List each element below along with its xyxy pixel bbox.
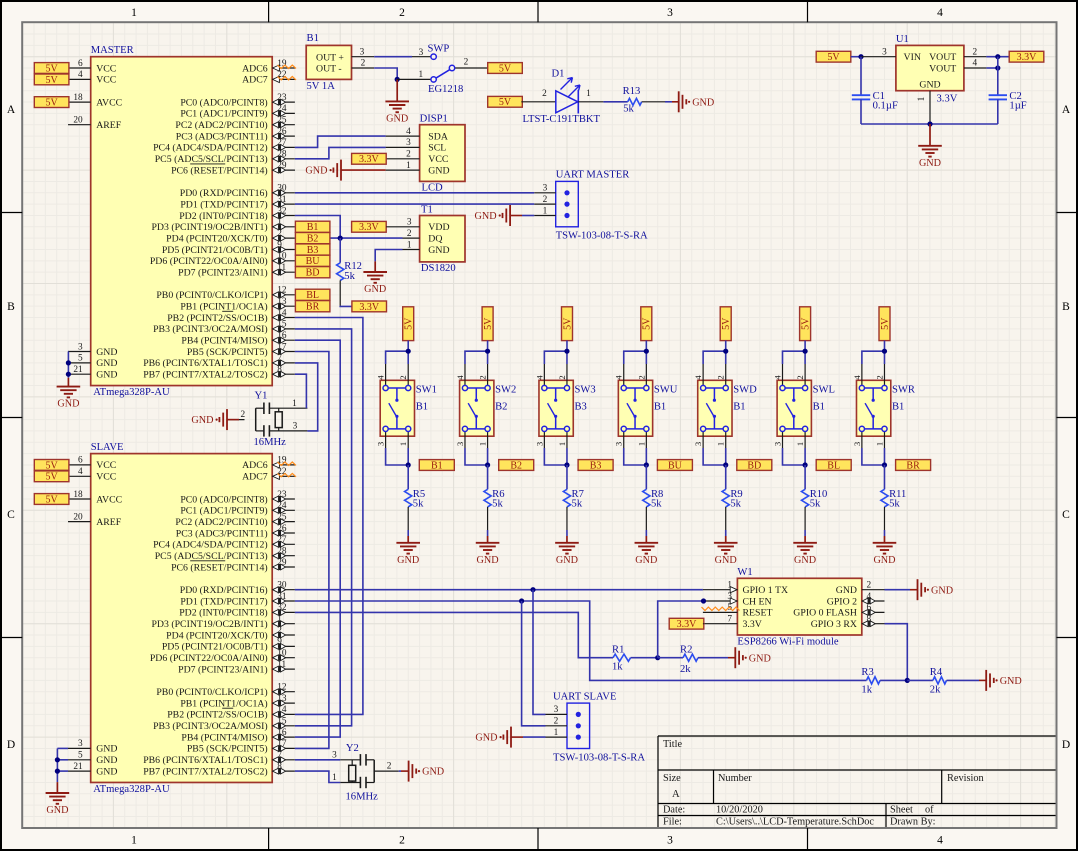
wire B2 net to T1 DQ	[330, 237, 403, 239]
svg-text:4: 4	[406, 127, 411, 137]
svg-text:D1: D1	[552, 69, 565, 80]
MASTER pin 29 PC6 (RESET/PCINT14)	[171, 161, 295, 177]
svg-text:ADC6: ADC6	[242, 460, 268, 471]
switch SWD B1	[693, 364, 757, 448]
wire SWD pins to net node	[703, 448, 726, 465]
resistor R3 1k	[861, 667, 880, 695]
title block	[658, 736, 1056, 827]
wire branch to UART SLAVE pin 2	[522, 601, 546, 726]
ground below R6	[476, 536, 500, 566]
MASTER pin 12 PB0 (PCINT0/CLKO/ICP1)	[156, 286, 295, 302]
svg-text:GND: GND	[836, 585, 857, 596]
svg-text:B1: B1	[307, 222, 319, 233]
svg-text:2: 2	[636, 375, 646, 379]
svg-text:5V: 5V	[721, 317, 732, 330]
SLAVE pin 32 PD2 (INT0/PCINT18)	[179, 603, 295, 619]
svg-text:GND: GND	[556, 555, 578, 566]
svg-text:2: 2	[361, 59, 366, 69]
resistor R9 5k	[722, 465, 743, 536]
wire U1 VOUT to 3.3V	[986, 56, 1009, 58]
svg-text:2: 2	[972, 47, 977, 57]
svg-text:2: 2	[399, 7, 405, 19]
svg-text:5k: 5k	[492, 499, 503, 510]
switch SWR B1	[852, 364, 916, 448]
svg-text:2: 2	[464, 58, 469, 68]
MASTER pin 1 PD3 (PCINT19/OC2B/INT1)	[151, 218, 294, 234]
ground left of DISP1 GND pin	[305, 160, 385, 181]
svg-text:2k: 2k	[680, 664, 691, 675]
IC MASTER ATmega328P-AU body	[91, 45, 273, 398]
SLAVE pin 29 PC6 (RESET/PCINT14)	[171, 558, 295, 574]
svg-text:2: 2	[407, 229, 412, 239]
MASTER pin 13 PB1 (PCINT1/OC1A)	[180, 297, 295, 313]
svg-text:1: 1	[543, 206, 548, 216]
net label B1 at SW1	[419, 460, 454, 472]
svg-text:1: 1	[406, 161, 411, 171]
svg-text:PD7 (PCINT23/AIN1): PD7 (PCINT23/AIN1)	[178, 268, 268, 279]
ground symbol below U1	[918, 124, 942, 169]
wire node up to W1 CH EN	[658, 601, 704, 658]
wire MASTER GND pins bundle	[67, 352, 69, 378]
svg-text:3: 3	[852, 442, 862, 446]
svg-text:2: 2	[398, 375, 408, 379]
svg-text:GND: GND	[96, 358, 117, 369]
header UART MASTER TSW-103-08-T-S-RA	[556, 170, 648, 242]
junction above SWR	[882, 349, 887, 354]
ground below R11	[873, 536, 897, 566]
ground symbol below B1	[385, 79, 409, 124]
svg-text:PD7 (PCINT23/AIN1): PD7 (PCINT23/AIN1)	[178, 664, 268, 675]
junction below SW2	[485, 462, 490, 467]
svg-text:PD0 (RXD/PCINT16): PD0 (RXD/PCINT16)	[180, 585, 268, 596]
MASTER pin 23 PC0 (ADC0/PCINT8)	[180, 93, 295, 109]
svg-text:SW3: SW3	[574, 385, 595, 396]
SLAVE pin 18 AVCC	[68, 490, 122, 506]
U1 pin 2 VOUT	[964, 47, 986, 57]
svg-text:3: 3	[407, 218, 412, 228]
svg-text:3: 3	[293, 422, 298, 432]
resistor R8 5k	[643, 465, 664, 536]
SLAVE pin 16 PB4 (PCINT4/MISO)	[181, 728, 294, 744]
svg-text:1: 1	[586, 89, 591, 99]
resistor R10 5k	[802, 465, 828, 536]
SLAVE pin 26 PC3 (ADC3/PCINT11)	[176, 524, 295, 540]
no-ERC marker MASTER ADC7	[278, 77, 297, 80]
junction below SWD	[723, 462, 728, 467]
svg-text:GND: GND	[96, 744, 117, 755]
U1 pin 4 VOUT	[964, 59, 986, 69]
junction VOUT node	[995, 54, 1000, 59]
svg-text:1: 1	[398, 442, 408, 446]
svg-text:3: 3	[693, 442, 703, 446]
svg-text:SWL: SWL	[813, 385, 835, 396]
junction above SW2	[485, 349, 490, 354]
svg-text:PC1 (ADC1/PCINT9): PC1 (ADC1/PCINT9)	[180, 109, 267, 120]
junction below SWL	[803, 462, 808, 467]
svg-text:PC0 (ADC0/PCINT8): PC0 (ADC0/PCINT8)	[180, 97, 267, 108]
svg-text:T1: T1	[421, 204, 433, 215]
MASTER pin 31 PD1 (TXD/PCINT17)	[180, 195, 295, 211]
svg-text:4: 4	[614, 375, 624, 380]
MASTER pin 11 PD7 (PCINT23/AIN1)	[178, 263, 295, 279]
DISP1 pin 4 SDA	[386, 127, 448, 143]
T1 pin 1 GND	[403, 240, 450, 256]
junction at MASTER GND pin 5	[66, 360, 71, 365]
svg-text:PD6 (PCINT22/OC0A/AIN0): PD6 (PCINT22/OC0A/AIN0)	[150, 256, 268, 267]
SLAVE pin 20 AREF	[68, 512, 122, 528]
power port 5V at U1 VIN	[816, 51, 851, 63]
svg-text:PD5 (PCINT21/OC0B/T1): PD5 (PCINT21/OC0B/T1)	[162, 642, 268, 653]
svg-text:2: 2	[716, 375, 726, 379]
svg-text:BU: BU	[306, 256, 321, 267]
resistor R13 5k	[623, 86, 642, 114]
svg-text:PC4 (ADC4/SDA/PCINT12): PC4 (ADC4/SDA/PCINT12)	[153, 143, 268, 154]
UART SLAVE pin 1	[546, 728, 568, 738]
svg-text:7: 7	[727, 615, 732, 625]
svg-text:5V: 5V	[45, 63, 58, 74]
svg-text:VOUT: VOUT	[929, 64, 956, 75]
junction VOUT2 node	[995, 65, 1000, 70]
svg-text:3.3V: 3.3V	[1017, 52, 1038, 63]
svg-text:1: 1	[478, 442, 488, 446]
MASTER pin 27 PC4 (ADC4/SDA/PCINT12)	[153, 138, 295, 154]
svg-text:EG1218: EG1218	[428, 84, 463, 95]
ground symbol below T1	[363, 261, 387, 295]
UART MASTER pin 1	[534, 206, 556, 216]
U1 pin 1 GND	[917, 91, 930, 124]
svg-text:Revision: Revision	[947, 773, 984, 784]
svg-text:GND: GND	[191, 415, 213, 426]
svg-text:5V: 5V	[45, 98, 58, 109]
wire 5V to SW1 pins	[386, 341, 409, 364]
svg-text:B2: B2	[495, 402, 507, 413]
svg-text:VCC: VCC	[96, 472, 116, 483]
svg-text:5k: 5k	[572, 499, 583, 510]
svg-text:18: 18	[73, 490, 83, 500]
svg-text:3: 3	[376, 442, 386, 446]
ground below R8	[635, 536, 659, 566]
svg-text:File:: File:	[663, 816, 682, 827]
svg-text:B2: B2	[510, 460, 522, 471]
svg-text:PB3 (PCINT3/OC2A/MOSI): PB3 (PCINT3/OC2A/MOSI)	[153, 721, 268, 732]
svg-text:PD2 (INT0/PCINT18): PD2 (INT0/PCINT18)	[179, 211, 267, 222]
SLAVE pin 15 PB3 (PCINT3/OC2A/MOSI)	[153, 717, 295, 733]
SLAVE pin 12 PB0 (PCINT0/CLKO/ICP1)	[156, 683, 295, 699]
power port 5V above SW3	[562, 307, 574, 341]
svg-text:VCC: VCC	[96, 460, 116, 471]
svg-text:OUT -: OUT -	[316, 64, 342, 75]
svg-text:GND: GND	[919, 158, 941, 169]
SLAVE pin 28 PC5 (ADC5/SCL/PCINT13)	[155, 547, 295, 563]
svg-text:3: 3	[78, 739, 83, 749]
svg-text:TSW-103-08-T-S-RA: TSW-103-08-T-S-RA	[556, 231, 648, 242]
svg-text:CH EN: CH EN	[743, 596, 772, 607]
switch SWL B1	[773, 364, 835, 448]
wire SLAVE GND pins bundle	[57, 748, 68, 782]
svg-text:1: 1	[716, 442, 726, 446]
SLAVE pin 11 PD7 (PCINT23/AIN1)	[178, 660, 295, 676]
svg-text:PC3 (ADC3/PCINT11): PC3 (ADC3/PCINT11)	[176, 528, 268, 539]
svg-text:GPIO 1 TX: GPIO 1 TX	[743, 585, 789, 596]
svg-text:5V: 5V	[642, 317, 653, 330]
wire MASTER PC5 to DISP1 SCL	[295, 147, 386, 158]
svg-text:3: 3	[554, 705, 559, 715]
ground right of R4	[979, 670, 1022, 691]
wire SLAVE PD1 main	[295, 601, 867, 680]
svg-text:5V: 5V	[499, 97, 512, 108]
svg-text:5k: 5k	[623, 104, 634, 115]
MASTER pin 19 ADC6	[242, 59, 295, 75]
MASTER pin 5 GND	[68, 354, 117, 370]
junction below SWR	[882, 462, 887, 467]
svg-text:BR: BR	[306, 302, 320, 313]
SLAVE pin 22 ADC7	[242, 467, 295, 483]
svg-text:U1: U1	[896, 34, 909, 45]
svg-text:ADC7: ADC7	[242, 472, 268, 483]
net label BD at SWD	[737, 460, 772, 472]
svg-text:GND: GND	[96, 347, 117, 358]
svg-text:B1: B1	[307, 33, 319, 44]
svg-text:SW1: SW1	[416, 385, 437, 396]
svg-text:AVCC: AVCC	[96, 97, 122, 108]
svg-text:GND: GND	[96, 766, 117, 777]
svg-text:1: 1	[795, 442, 805, 446]
wire 3.3V to T1 VDD	[386, 226, 402, 228]
svg-text:2: 2	[557, 375, 567, 379]
svg-text:1: 1	[557, 442, 567, 446]
header UART SLAVE TSW-103-08-T-S-RA	[553, 691, 645, 763]
svg-text:Y1: Y1	[255, 391, 268, 402]
svg-text:2: 2	[406, 150, 411, 160]
wire node to R2	[658, 657, 683, 659]
wire 5V to SWL pins	[783, 341, 806, 364]
power port 5V at SLAVE VCC pin 6	[34, 460, 69, 472]
MASTER pin 26 PC3 (ADC3/PCINT11)	[176, 127, 295, 143]
svg-text:3: 3	[78, 342, 83, 352]
svg-text:Sheet: Sheet	[890, 805, 913, 816]
svg-text:PB5 (SCK/PCINT5): PB5 (SCK/PCINT5)	[187, 744, 268, 755]
ground left of UART MASTER pin 1	[475, 205, 522, 226]
temperature sensor T1 DS1820	[420, 204, 465, 274]
ground left of UART SLAVE pin 1	[475, 727, 523, 748]
UART MASTER pin 3	[534, 184, 556, 194]
MASTER pin 17 PB5 (SCK/PCINT5)	[187, 342, 295, 358]
svg-text:OUT +: OUT +	[316, 52, 344, 63]
svg-text:5k: 5k	[651, 499, 662, 510]
svg-text:1: 1	[636, 442, 646, 446]
power port 5V above SW2	[482, 307, 494, 341]
svg-text:ESP8266 Wi-Fi module: ESP8266 Wi-Fi module	[737, 637, 839, 648]
svg-text:BD: BD	[306, 268, 320, 279]
svg-text:5: 5	[78, 751, 83, 761]
resistor R1 1k	[612, 645, 631, 673]
svg-text:B: B	[7, 301, 15, 313]
svg-text:PC4 (ADC4/SDA/PCINT12): PC4 (ADC4/SDA/PCINT12)	[153, 540, 268, 551]
junction SLAVE PD1 branch	[519, 598, 524, 603]
MASTER pin 21 GND	[68, 365, 117, 381]
svg-text:1k: 1k	[861, 684, 872, 695]
svg-text:5k: 5k	[413, 499, 424, 510]
power port 5V at D1 anode	[488, 96, 523, 108]
MASTER pin 20 AREF	[68, 116, 122, 132]
svg-text:UART SLAVE: UART SLAVE	[553, 691, 616, 702]
svg-text:3: 3	[332, 750, 337, 760]
ground below R10	[793, 536, 817, 566]
svg-text:PB6 (PCINT6/XTAL1/TOSC1): PB6 (PCINT6/XTAL1/TOSC1)	[143, 358, 268, 369]
svg-text:GND: GND	[1000, 676, 1022, 687]
SLAVE pin 10 PD6 (PCINT22/OC0A/AIN0)	[150, 649, 295, 665]
net label BR at SWR	[896, 460, 931, 472]
svg-text:BU: BU	[668, 460, 683, 471]
B1 pin 3 OUT+	[352, 47, 375, 57]
power port 3.3V at DISP1 VCC	[352, 153, 387, 165]
svg-text:PB7 (PCINT7/XTAL2/TOSC2): PB7 (PCINT7/XTAL2/TOSC2)	[143, 766, 268, 777]
svg-text:3: 3	[667, 835, 673, 847]
svg-text:BR: BR	[906, 460, 920, 471]
svg-text:2: 2	[867, 581, 872, 591]
svg-text:W1: W1	[737, 567, 752, 578]
wire 3.3V to W1 pin 7	[702, 623, 705, 625]
svg-text:GND: GND	[364, 284, 386, 295]
SLAVE pin 25 PC2 (ADC2/PCINT10)	[175, 512, 294, 528]
wire 5V to SW2 pins	[465, 341, 488, 364]
svg-text:B3: B3	[574, 402, 586, 413]
svg-text:PD3 (PCINT19/OC2B/INT1): PD3 (PCINT19/OC2B/INT1)	[151, 222, 267, 233]
svg-text:GND: GND	[96, 370, 117, 381]
svg-text:R3: R3	[861, 667, 873, 678]
svg-text:PB4 (PCINT4/MISO): PB4 (PCINT4/MISO)	[181, 732, 267, 743]
svg-text:PB2 (PCINT2/SS/OC1B): PB2 (PCINT2/SS/OC1B)	[167, 313, 267, 324]
junction R1-R2 node	[655, 655, 660, 660]
no-ERC marker W1 RESET	[702, 607, 740, 610]
svg-text:DQ: DQ	[428, 233, 442, 244]
W1 pin 2 GND	[836, 581, 885, 597]
W1 pin 5 RESET	[703, 603, 773, 619]
svg-text:PD4 (PCINT20/XCK/T0): PD4 (PCINT20/XCK/T0)	[166, 233, 268, 244]
svg-text:2: 2	[387, 762, 392, 772]
wire 5V to SWU pins	[624, 341, 647, 364]
svg-text:5V: 5V	[483, 317, 494, 330]
svg-text:GND: GND	[96, 755, 117, 766]
wire SLAVE PB6 to Y2 pin 3	[295, 759, 340, 761]
net label BR at MASTER PB1	[295, 301, 330, 313]
DISP1 pin 3 SCL	[386, 138, 447, 154]
SLAVE pin 13 PB1 (PCINT1/OC1A)	[180, 694, 295, 710]
svg-text:D: D	[1062, 739, 1070, 751]
svg-text:6: 6	[78, 59, 83, 69]
MASTER pin 14 PB2 (PCINT2/SS/OC1B)	[167, 308, 295, 324]
MASTER pin 32 PD2 (INT0/PCINT18)	[179, 206, 295, 222]
svg-text:5V: 5V	[827, 52, 840, 63]
power port 5V above SWD	[720, 307, 732, 341]
svg-text:3: 3	[614, 442, 624, 446]
svg-text:ADC6: ADC6	[242, 63, 268, 74]
UART SLAVE pin 3	[546, 705, 568, 715]
wire MASTER PB4 to SLAVE PB4	[295, 340, 340, 737]
junction above SW3	[564, 349, 569, 354]
svg-text:4: 4	[376, 375, 386, 380]
wire MASTER PD1 to UART MASTER pin 2	[295, 203, 534, 205]
svg-text:PC0 (ADC0/PCINT8): PC0 (ADC0/PCINT8)	[180, 494, 267, 505]
svg-text:B1: B1	[654, 402, 666, 413]
switch SW2 B2	[455, 364, 516, 448]
svg-text:3.3V: 3.3V	[359, 154, 380, 165]
svg-text:3: 3	[419, 48, 424, 58]
wire GND to UART SLAVE pin 1	[523, 736, 546, 738]
wire branch to UART SLAVE pin 3	[533, 590, 546, 715]
svg-text:5V: 5V	[45, 472, 58, 483]
svg-text:PD1 (TXD/PCINT17): PD1 (TXD/PCINT17)	[180, 596, 267, 607]
wire MASTER PD0 to UART MASTER pin 3	[295, 192, 534, 194]
svg-text:AREF: AREF	[96, 517, 122, 528]
wire R2 to GND	[698, 657, 728, 659]
wire R3 to node	[880, 679, 907, 681]
power port 3.3V at W1	[669, 618, 704, 630]
svg-text:Size: Size	[663, 773, 681, 784]
svg-text:R13: R13	[623, 86, 641, 97]
svg-text:PD3 (PCINT19/OC2B/INT1): PD3 (PCINT19/OC2B/INT1)	[151, 619, 267, 630]
SLAVE pin 1 PD3 (PCINT19/OC2B/INT1)	[151, 615, 294, 631]
svg-text:4: 4	[972, 59, 977, 69]
W1 pin 7 3.3V	[703, 615, 762, 631]
UART SLAVE pin 2	[546, 717, 568, 727]
junction at C1 top	[858, 54, 863, 59]
resistor R4 2k	[930, 667, 947, 695]
svg-text:VIN: VIN	[904, 52, 921, 63]
svg-text:of: of	[925, 805, 934, 816]
svg-text:MASTER: MASTER	[91, 45, 135, 56]
crystal Y2 16MHz	[332, 743, 399, 803]
SLAVE pin 3 GND	[68, 739, 117, 755]
svg-text:2: 2	[399, 835, 405, 847]
svg-text:GND: GND	[873, 555, 895, 566]
svg-text:SLAVE: SLAVE	[91, 442, 124, 453]
svg-text:1: 1	[917, 96, 927, 101]
SLAVE pin 8 PB7 (PCINT7/XTAL2/TOSC2)	[143, 762, 295, 778]
resistor R6 5k	[484, 465, 505, 536]
resistor R12 5k	[337, 238, 362, 306]
svg-text:PC6 (RESET/PCINT14): PC6 (RESET/PCINT14)	[171, 562, 268, 573]
wire GND to UART MASTER pin 1	[522, 215, 534, 217]
svg-text:PC2 (ADC2/PCINT10): PC2 (ADC2/PCINT10)	[175, 120, 267, 131]
wire R12 to 3.3V	[340, 305, 352, 308]
svg-text:Y2: Y2	[346, 743, 359, 754]
svg-text:5V: 5V	[404, 317, 415, 330]
net label B3 at SW3	[578, 460, 613, 472]
W1 pin 3 CH EN	[703, 592, 772, 608]
power port 3.3V at T1 VDD	[352, 221, 387, 233]
capacitor C2 1uF	[989, 57, 1027, 124]
svg-text:5V: 5V	[45, 460, 58, 471]
svg-text:SWU: SWU	[654, 385, 678, 396]
SLAVE pin 9 PD5 (PCINT21/OC0B/T1)	[162, 637, 295, 653]
ground below R7	[555, 536, 579, 566]
svg-text:GND: GND	[428, 165, 449, 176]
wire B1 OUT+ to SWP pin 3	[374, 56, 412, 58]
svg-text:GPIO 2: GPIO 2	[827, 596, 857, 607]
SLAVE pin 6 VCC	[68, 456, 116, 472]
SLAVE pin 27 PC4 (ADC4/SDA/PCINT12)	[153, 535, 295, 551]
svg-text:GND: GND	[57, 399, 79, 410]
svg-text:5V: 5V	[562, 317, 573, 330]
wire R4 to GND	[947, 679, 980, 681]
wire B1 OUT- down to switch pin 1	[374, 68, 397, 79]
wire MASTER PB3 to SLAVE PB3	[295, 329, 352, 726]
svg-text:4: 4	[534, 375, 544, 380]
LED D1 LTST-C191TBKT	[523, 69, 601, 126]
svg-text:6: 6	[78, 456, 83, 466]
resistor R11 5k	[881, 465, 906, 536]
